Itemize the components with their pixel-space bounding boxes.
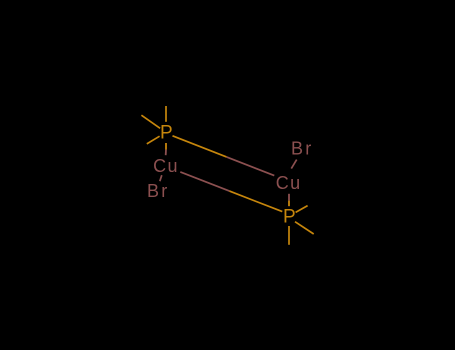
wire: P1 methyl stub lower-left	[147, 136, 160, 144]
svg-text:Cu: Cu	[276, 173, 302, 193]
wire: P2 methyl stub down	[288, 226, 290, 245]
svg-text:Br: Br	[291, 139, 313, 159]
wire: bond P1-Cu2 rosy half	[227, 157, 275, 176]
wire: P1 methyl stub upper-left	[141, 115, 160, 128]
wire: bond Cu1-Br1	[160, 175, 162, 181]
wire: bond Cu1-P2 rosy half	[180, 172, 229, 191]
wire: P1 methyl stub up	[165, 106, 167, 122]
wire: bond Cu1-P2 gold half	[230, 191, 283, 212]
svg-text:P: P	[283, 206, 296, 227]
svg-text:Cu: Cu	[153, 156, 179, 176]
wire: P2 methyl stub upper-right	[296, 206, 308, 213]
wire: bond Cu2-P2 gold half	[288, 201, 290, 207]
svg-text:P: P	[160, 122, 173, 143]
wire: bond P1-Cu1 gold half	[165, 143, 167, 150]
wire: bond P1-Cu1 rosy half	[165, 150, 167, 156]
wire: P2 methyl stub lower-right	[295, 222, 314, 234]
wire: bond Cu2-Br2	[291, 160, 296, 169]
wire: bond P1-Cu2 gold half	[173, 136, 227, 157]
svg-text:Br: Br	[147, 181, 169, 201]
wire: bond Cu2-P2 rosy half	[288, 194, 290, 201]
